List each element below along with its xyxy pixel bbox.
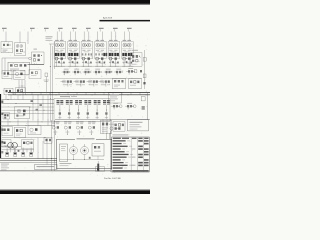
switching diode pair D35 bbox=[104, 69, 113, 76]
transistor Q32 bbox=[14, 70, 26, 79]
mains voltage selector label bbox=[35, 165, 58, 170]
logic gate IC U83 bbox=[76, 122, 83, 135]
mode select transistor Q86 bbox=[113, 122, 125, 132]
motor drive IC U92 bbox=[92, 144, 104, 156]
table row value 11 bbox=[113, 167, 128, 168]
table left wire bbox=[110, 131, 112, 172]
transistor Q103 bias stage bbox=[28, 49, 45, 65]
record amplifier channel block Q24 bbox=[95, 32, 107, 67]
oscillator transistor Q95 bbox=[109, 124, 121, 131]
wire harness to front panel bbox=[2, 99, 55, 113]
transformer T1 bbox=[8, 143, 18, 149]
bias oscillator Q27 bbox=[131, 50, 147, 70]
capstan control IC U71 bbox=[28, 126, 41, 135]
table row value 10 bbox=[113, 165, 149, 167]
relay contact K1 bbox=[57, 100, 64, 119]
ground reference note bbox=[1, 164, 9, 171]
reel motor resistor R63 bbox=[141, 92, 147, 120]
capstan motor M1 bbox=[70, 144, 78, 160]
table header row bbox=[113, 138, 149, 139]
table row value 8 bbox=[113, 159, 149, 161]
relay K7 bbox=[44, 137, 52, 143]
rectifier bridge D91 bbox=[22, 140, 34, 149]
scan edge left bar bbox=[0, 94, 3, 158]
table row value 6 bbox=[113, 154, 149, 156]
power supply label bbox=[75, 137, 96, 140]
scan edge top band bbox=[0, 0, 150, 5]
scan edge bottom band bbox=[0, 189, 150, 194]
table row value 1 bbox=[113, 140, 149, 142]
line filter L1 bbox=[96, 167, 105, 172]
switching diode pair D31 bbox=[62, 69, 71, 76]
playback amplifier Q41 bbox=[61, 80, 74, 87]
signal bus lines bbox=[8, 92, 150, 94]
line out transistor Q52 bbox=[16, 88, 26, 100]
level resistor network R45 bbox=[143, 70, 146, 89]
wire vertical feed bbox=[49, 42, 55, 121]
meter driver IC U41 bbox=[113, 78, 126, 89]
function switch legend box bbox=[128, 120, 149, 131]
svg-text:Part No: 1.067.380: Part No: 1.067.380 bbox=[104, 177, 122, 180]
wire PSU internal rail bbox=[60, 156, 105, 160]
wire channel bottom rail bbox=[54, 65, 134, 67]
solenoid driver Q72 bbox=[15, 127, 26, 138]
connector pin labels row bbox=[2, 28, 132, 32]
signal level table outline bbox=[112, 134, 150, 172]
relay contact K6 bbox=[103, 100, 110, 119]
switching diode pair D32 bbox=[72, 69, 81, 76]
switch bank lower rail bbox=[54, 99, 110, 122]
table row value 2 bbox=[113, 143, 149, 145]
coupling capacitor C34 bbox=[44, 73, 50, 92]
IC U101 input amplifier bbox=[1, 32, 13, 53]
power supply unit outline bbox=[57, 139, 112, 168]
record amplifier channel block Q21 bbox=[54, 32, 66, 67]
table row value 4 bbox=[113, 148, 149, 150]
table row value 5 bbox=[113, 151, 149, 153]
fuse F1 bbox=[97, 161, 99, 171]
reel motor M2 bbox=[81, 144, 89, 160]
wire drops to switch bank bbox=[33, 96, 48, 121]
record playback switch bank label bbox=[54, 96, 110, 99]
voltage regulator U91 bbox=[60, 144, 68, 162]
dolby IC U31 bbox=[2, 71, 12, 79]
muting transistor cluster Q31 bbox=[126, 68, 142, 75]
wire supply feed bbox=[107, 133, 110, 139]
header rule bbox=[100, 20, 151, 22]
meter driver IC U42 bbox=[129, 79, 142, 89]
inline resistor R55 bbox=[31, 100, 42, 110]
record amplifier channel block Q23 bbox=[81, 32, 93, 67]
equalizer network R33 bbox=[29, 70, 41, 79]
switching diode pair D34 bbox=[93, 69, 102, 77]
IC U102 line driver bbox=[2, 58, 30, 74]
power rail lines bbox=[0, 159, 57, 163]
part number text bbox=[104, 177, 122, 180]
header date text bbox=[103, 17, 113, 20]
output jack J5 bbox=[3, 113, 10, 119]
table column rules bbox=[131, 137, 143, 172]
playback amplifier Q43 bbox=[87, 80, 99, 87]
filter capacitor bank C91-C94 bbox=[6, 150, 33, 157]
record amplifier channel block Q22 bbox=[68, 32, 80, 67]
logic gate IC U84 bbox=[88, 122, 95, 135]
transistor pair Q101 Q102 bbox=[15, 32, 29, 56]
relay contact K3 bbox=[75, 100, 82, 119]
switching diode pair D33 bbox=[83, 69, 92, 76]
table row value 3 bbox=[113, 146, 143, 148]
power transistor Q91 bbox=[2, 140, 11, 147]
headphone amplifier Q53 bbox=[15, 107, 30, 119]
wire rectifier links bbox=[1, 146, 34, 152]
counter display note bbox=[109, 93, 122, 103]
wire power distribution bbox=[2, 138, 47, 165]
erase head driver IC U25 bbox=[103, 53, 107, 56]
wire playback rail bbox=[55, 78, 142, 80]
chassis ground rail bbox=[0, 170, 111, 172]
relay contact K4 bbox=[84, 100, 91, 119]
logic gate IC U82 bbox=[64, 122, 71, 135]
solenoid driver Q71 bbox=[2, 127, 13, 136]
logic gate IC U81 bbox=[52, 122, 59, 135]
record amplifier channel block Q26 bbox=[122, 32, 134, 67]
table row value 9 bbox=[113, 162, 149, 164]
wire control bus bbox=[0, 119, 150, 134]
bus junction dots bbox=[20, 93, 147, 96]
wire bus to equalizer bbox=[19, 80, 25, 92]
table row value 7 bbox=[113, 156, 143, 158]
playback amplifier Q42 bbox=[74, 80, 86, 87]
record amplifier channel block Q25 bbox=[108, 32, 120, 67]
relay contact K2 bbox=[66, 100, 73, 119]
wire PSU feed left bbox=[51, 120, 55, 171]
scan speckle texture bbox=[2, 28, 148, 176]
counter transistor Q61 bbox=[111, 103, 122, 110]
note text block bbox=[46, 36, 53, 41]
mode select IC U85 bbox=[101, 120, 112, 134]
supply note text bbox=[60, 163, 72, 166]
line out transistor Q51 bbox=[4, 88, 13, 99]
svg-text:April 2008: April 2008 bbox=[103, 17, 113, 20]
playback amplifier Q44 bbox=[99, 80, 111, 87]
switching diode pair D36 bbox=[114, 69, 123, 76]
counter transistor Q62 bbox=[125, 103, 136, 110]
relay contact K5 bbox=[94, 100, 101, 119]
